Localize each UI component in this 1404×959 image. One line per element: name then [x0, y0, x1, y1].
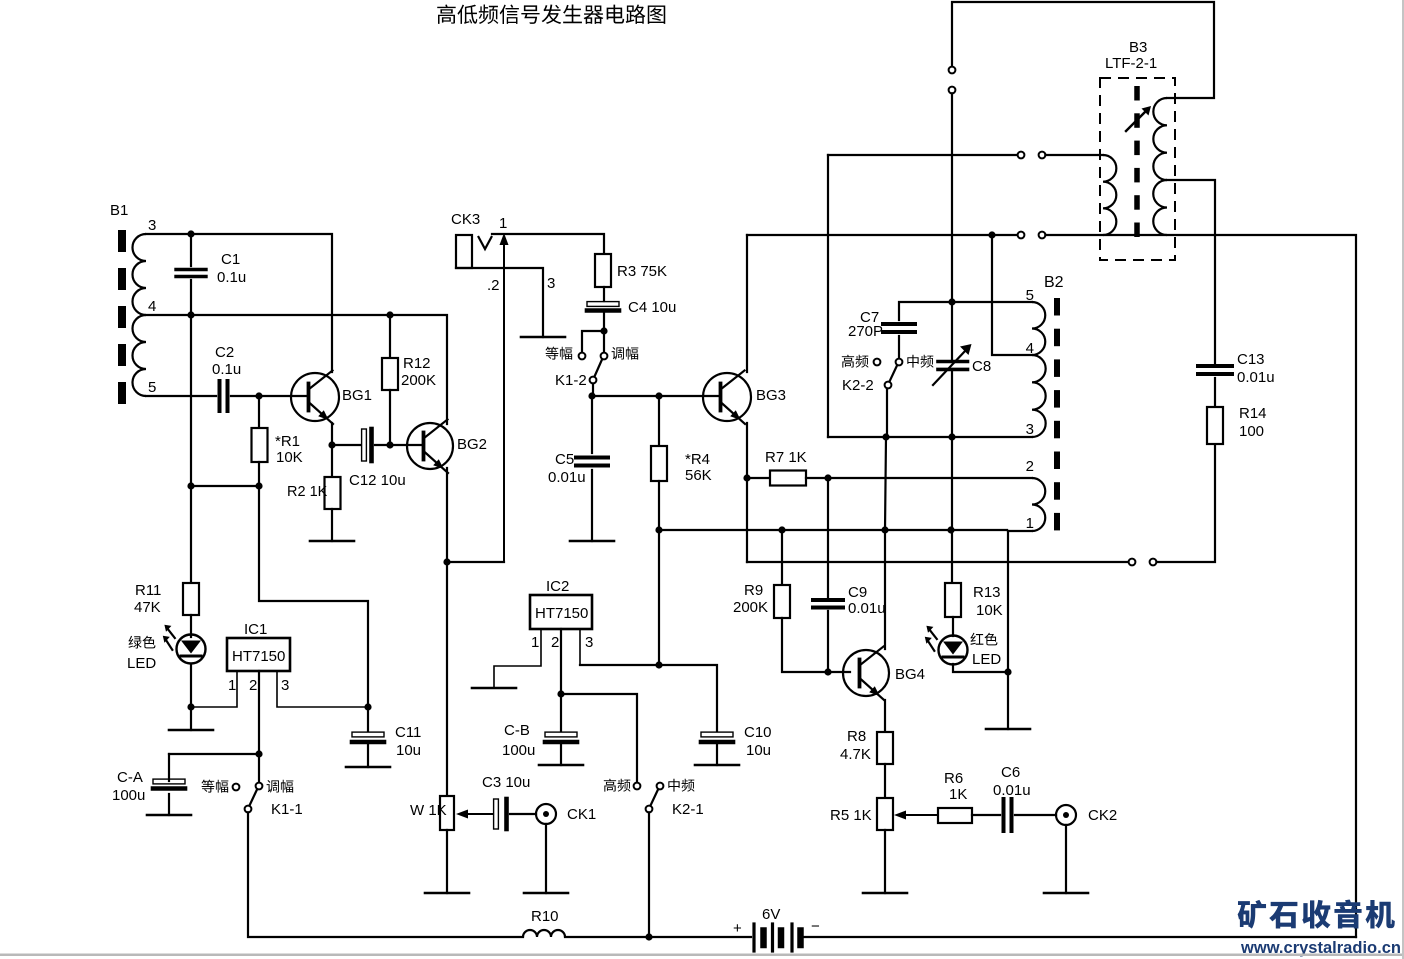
wire R9 bottom to BG4 base	[782, 618, 850, 672]
resistor R4	[651, 446, 667, 481]
capacitor C10	[701, 732, 733, 742]
wire x828 from y155 line down	[827, 155, 829, 437]
ground under R5	[863, 892, 907, 895]
svg-text:3: 3	[585, 634, 593, 651]
wire BG4 emitter to R8	[884, 700, 886, 732]
switch K1-1 lever	[250, 790, 258, 806]
jack CK1	[536, 804, 556, 824]
wire R7 right to B2 pin2	[806, 477, 1032, 479]
svg-text:10u: 10u	[746, 742, 771, 759]
wire K1-2 node to BG3 base	[592, 395, 719, 397]
svg-text:3: 3	[281, 677, 289, 694]
wire W pot bottom lead	[446, 830, 448, 893]
capacitor C-B	[545, 732, 577, 742]
contact 高频 of K2-2	[874, 359, 881, 366]
wire B1 pin5 to C2	[146, 395, 216, 397]
wire K1-1 common down to bottom rail	[248, 812, 523, 937]
transformer B3 left winding	[1103, 155, 1116, 235]
node C12 / R12 / BG2 base	[386, 441, 393, 448]
wire C8 node down to bus	[951, 437, 953, 530]
wire to BG2 base	[390, 444, 422, 446]
wire R3 to C4	[603, 287, 605, 301]
capacitor C11	[352, 732, 384, 742]
contact right pair upper switch	[1039, 152, 1046, 159]
node B2 pin5 / C8 / C7	[948, 298, 955, 305]
svg-text:R11: R11	[135, 582, 161, 599]
wire R12 bottom lead	[389, 390, 391, 445]
svg-text:−: −	[811, 918, 820, 935]
capacitor C9	[813, 600, 843, 608]
label 调幅 (K1-2)	[612, 347, 639, 360]
wire bus down to R13	[951, 530, 953, 583]
wire C12 right lead	[375, 444, 390, 446]
ground IC2 pin1	[472, 687, 516, 690]
wire R2 top lead	[331, 445, 333, 477]
svg-text:100u: 100u	[112, 787, 145, 804]
node bus / R13	[947, 526, 954, 533]
svg-text:C11: C11	[395, 724, 421, 741]
label 绿色	[128, 636, 155, 649]
wire C4 to 调幅 contact	[603, 331, 605, 352]
wire R4 bottom lead	[658, 481, 660, 530]
node R1 bottom rail junction	[187, 482, 194, 489]
wiper arrow R5	[894, 811, 938, 820]
svg-text:BG4: BG4	[895, 666, 925, 683]
transformer B2 lower winding	[1032, 478, 1045, 531]
wire IC2 pin3	[579, 629, 581, 665]
node K2-2 / B2 pin3 wire	[882, 433, 889, 440]
wire top switch down to B2 pin5 node	[951, 93, 953, 302]
contact common K1-2	[590, 377, 597, 384]
svg-text:IC1: IC1	[244, 621, 267, 638]
transformer B2 upper winding	[1032, 302, 1046, 437]
svg-text:B2: B2	[1044, 274, 1064, 291]
wire top loop	[952, 2, 1214, 98]
svg-text:+: +	[733, 920, 742, 937]
bus wire R4-R9-BG4-R13	[659, 529, 1007, 531]
label 中频 (K2-2)	[907, 355, 933, 368]
wire pin2 to 高频 contact	[561, 694, 637, 783]
ground B2 pin1	[986, 728, 1030, 731]
svg-text:47K: 47K	[134, 599, 161, 616]
switch K2-1 lever	[651, 790, 659, 806]
resistor R7	[770, 471, 806, 486]
svg-text:CK3: CK3	[451, 211, 480, 228]
svg-text:R2 1K: R2 1K	[287, 484, 328, 500]
wire C5 top lead	[591, 396, 593, 453]
wire R5 bottom lead	[884, 830, 886, 893]
svg-text:HT7150: HT7150	[535, 605, 588, 622]
svg-text:R6: R6	[944, 770, 963, 787]
node BG2 emitter / CK3.2 / W	[443, 558, 450, 565]
battery 6V	[754, 924, 801, 951]
svg-text:C6: C6	[1001, 764, 1020, 781]
resistor R11	[183, 583, 199, 615]
wire R4 node down to IC2 pin3 rail	[658, 530, 660, 665]
arrow adjustable core B3	[1126, 106, 1151, 131]
wire C11 top lead	[367, 707, 369, 731]
node K2-1 / bottom rail	[645, 933, 652, 940]
wire BG3 collector up	[746, 235, 748, 372]
wire C-A top lead	[169, 753, 259, 755]
wire C2 to BG1 base	[231, 395, 307, 397]
svg-text:C-A: C-A	[117, 769, 143, 786]
wire R9 top lead	[781, 530, 783, 585]
svg-text:R12: R12	[403, 355, 431, 372]
op-amp IC1 HT7150 box	[227, 638, 290, 671]
ground under C5	[570, 540, 614, 543]
label 高频 (K2-2)	[842, 355, 869, 368]
ground under C10	[695, 764, 739, 767]
wire IC1 pin2	[258, 671, 260, 783]
wire BG3 emitter down	[746, 423, 748, 562]
svg-text:0.01u: 0.01u	[993, 782, 1031, 799]
wire IC1 pin3	[277, 671, 368, 707]
transistor BG1	[291, 371, 339, 425]
node C8 / B2 pin3	[948, 433, 955, 440]
contact right pair lower switch	[1039, 232, 1046, 239]
node pin3 / R4 rail	[655, 661, 662, 668]
svg-text:5: 5	[1026, 287, 1034, 304]
svg-text:LED: LED	[972, 651, 1001, 668]
svg-text:6V: 6V	[762, 906, 780, 923]
svg-text:LTF-2-1: LTF-2-1	[1105, 55, 1157, 72]
svg-text:10K: 10K	[976, 602, 1003, 619]
wire W pot top lead	[446, 562, 448, 796]
svg-text:IC2: IC2	[546, 578, 569, 595]
wire BG4 collector up to bus	[884, 530, 886, 649]
svg-text:CK2: CK2	[1088, 807, 1117, 824]
wire R13 to LED	[952, 617, 954, 636]
contact 调幅 of K1-2	[601, 353, 608, 360]
transformer B2 core	[1054, 298, 1060, 530]
resistor R2	[325, 477, 341, 509]
transformer B1 core	[118, 230, 126, 404]
node bus / R9	[778, 526, 785, 533]
transistor BG4	[843, 647, 889, 701]
contact 调幅 of K1-1	[256, 783, 263, 790]
svg-text:C10: C10	[744, 724, 772, 741]
svg-text:10u: 10u	[396, 742, 421, 759]
wire CK3 body bottom / pin3	[456, 268, 543, 337]
wire B2 pin3 terminal	[828, 436, 1032, 438]
jack CK2	[1056, 805, 1076, 825]
capacitor C6	[1004, 799, 1012, 831]
node R4 / bus	[655, 526, 662, 533]
transformer B3 shield box	[1100, 78, 1175, 260]
contact common K2-2	[885, 382, 892, 389]
label 中频 (K2-1)	[668, 779, 694, 792]
wire C-A bottom lead	[168, 794, 170, 815]
svg-text:.2: .2	[487, 277, 500, 294]
svg-text:R13: R13	[973, 584, 1001, 601]
wire C6 to CK2	[1015, 814, 1056, 816]
wire BG1 emitter down	[331, 423, 333, 445]
svg-text:*R4: *R4	[685, 451, 710, 468]
wire K2-2 common down	[886, 389, 888, 438]
capacitor C2	[220, 381, 228, 411]
wire C7 to 中频 contact	[898, 336, 900, 358]
wire C7 hook	[899, 302, 952, 320]
wire B1 pin3 to BG1 collector	[146, 234, 332, 372]
svg-text:5: 5	[148, 379, 156, 396]
capacitor C1	[176, 270, 206, 277]
node BG1 emitter / R2 / C12	[328, 441, 335, 448]
wire x828 top to left upper contact	[828, 154, 1018, 156]
svg-text:BG3: BG3	[756, 387, 786, 404]
wire upper switch to B3 left winding top	[1045, 154, 1103, 156]
svg-text:2: 2	[551, 634, 559, 651]
contact top switch lower	[949, 87, 956, 94]
svg-text:K1-1: K1-1	[271, 801, 303, 818]
resistor R8	[877, 732, 893, 764]
svg-text:*R1: *R1	[275, 433, 300, 450]
wire R11 to LED	[190, 615, 192, 637]
wire R6 to C6	[972, 814, 1000, 816]
wire C1 bottom lead	[190, 280, 192, 315]
node IC1 pin2 / C-A	[255, 750, 262, 757]
inductor R10	[523, 930, 565, 937]
ground under C-B	[539, 764, 583, 767]
wire red LED cathode	[953, 664, 1008, 672]
contact 等幅 of K1-1	[233, 784, 240, 791]
svg-text:100: 100	[1239, 423, 1264, 440]
node bus / BG4 collector	[881, 526, 888, 533]
wire bottom rail R10 to battery	[565, 936, 751, 938]
svg-text:HT7150: HT7150	[232, 648, 285, 665]
svg-text:R7 1K: R7 1K	[765, 449, 807, 466]
transformer B1 winding	[133, 234, 147, 396]
wire CK3 pin2 to BG2 emitter node	[447, 561, 504, 563]
svg-text:0.01u: 0.01u	[1237, 369, 1275, 386]
svg-text:2: 2	[249, 677, 257, 694]
svg-text:0.01u: 0.01u	[548, 469, 586, 486]
svg-text:R8: R8	[847, 728, 866, 745]
capacitor C12	[362, 429, 372, 461]
LED green (绿色)	[163, 625, 206, 664]
wire BG3 emitter line to K3 contacts	[747, 561, 1129, 563]
wire B2 pin4 to y235	[992, 235, 1032, 355]
resistor R12	[382, 358, 398, 390]
svg-text:B1: B1	[110, 202, 128, 219]
wire CK2 to ground	[1065, 825, 1067, 893]
wire IC2 pin1	[494, 629, 541, 688]
capacitor C5	[576, 458, 608, 466]
wire B1 pin4 rail to BG2 collector	[146, 315, 447, 424]
wire C3 to CK1	[510, 813, 536, 815]
svg-text:56K: 56K	[685, 467, 712, 484]
contact 中频 of K2-2	[896, 359, 903, 366]
svg-text:200K: 200K	[401, 372, 436, 389]
wire C4 bottom lead	[603, 313, 605, 331]
switch K1-2 lever	[595, 360, 603, 377]
contact left pair upper switch	[1018, 152, 1025, 159]
svg-text:R9: R9	[744, 582, 763, 599]
wire CK1 to ground	[545, 824, 547, 893]
svg-text:C9: C9	[848, 584, 867, 601]
wire feedback to IC1 pin3 rail	[259, 486, 368, 703]
svg-text:10K: 10K	[276, 449, 303, 466]
wire B2 pin5 terminal	[952, 301, 1032, 303]
node BG3 emitter / R7	[743, 474, 750, 481]
wire left rail down from pin4 node	[190, 315, 192, 583]
node IC1 pin3 / C11 / feedback	[364, 703, 371, 710]
node K1-2 / C5 / BG3 base	[588, 392, 595, 399]
wire C-A riser	[168, 754, 170, 781]
svg-text:R14: R14	[1239, 405, 1267, 422]
watermark 矿石收音机	[1238, 900, 1395, 929]
svg-text:C1: C1	[221, 251, 240, 268]
wire BG2 emitter down to W node	[446, 468, 448, 562]
node B1 pin3 / C1	[187, 230, 194, 237]
wire C9 bottom lead	[827, 611, 829, 672]
svg-text:C5: C5	[555, 451, 574, 468]
wire K2-1 common down to battery rail	[648, 812, 650, 937]
resistor R3	[595, 254, 611, 287]
node y235 / B2 pin4 riser	[988, 231, 995, 238]
label 等幅 (K1-2)	[545, 347, 572, 360]
ground CK3 pin3	[521, 336, 565, 339]
svg-text:0.1u: 0.1u	[217, 269, 246, 286]
potentiometer R5	[877, 798, 893, 830]
wire battery to right rail	[804, 936, 1357, 938]
contact left pair lower switch	[1018, 232, 1025, 239]
wire C-B bottom lead	[560, 745, 562, 765]
wire lower switch to B3 left winding	[1045, 235, 1356, 937]
wire R12 top lead	[389, 315, 391, 358]
transistor BG3	[703, 371, 751, 425]
svg-text:W 1K: W 1K	[410, 802, 447, 819]
wire B2 pin1 terminal	[1008, 530, 1032, 532]
ground under R2	[310, 540, 354, 543]
potentiometer W	[440, 796, 454, 830]
wire C5 bottom lead	[591, 470, 593, 541]
svg-text:K2-1: K2-1	[672, 801, 704, 818]
capacitor C8 variable	[933, 344, 972, 385]
capacitor C-A	[153, 779, 185, 788]
wiper arrow W	[456, 810, 492, 819]
LED red (红色)	[925, 626, 968, 665]
capacitor C7	[883, 324, 915, 332]
svg-text:LED: LED	[127, 655, 156, 672]
node red LED cathode / pin1 rail	[1004, 668, 1011, 675]
wire green LED cathode to ground	[190, 664, 192, 730]
node pin4/R12	[386, 311, 393, 318]
svg-text:B3: B3	[1129, 39, 1147, 56]
switch K2-2 lever	[890, 366, 898, 382]
svg-text:0.01u: 0.01u	[848, 600, 886, 617]
ground under C11	[346, 766, 390, 769]
svg-text:270P: 270P	[848, 323, 883, 340]
svg-text:1: 1	[531, 634, 539, 651]
node IC2 pin2 / C-B / K2-1	[557, 690, 564, 697]
svg-text:R3 75K: R3 75K	[617, 263, 667, 280]
contact 中频 of K2-1	[657, 783, 664, 790]
svg-text:4.7K: 4.7K	[840, 746, 871, 763]
op-amp IC2 HT7150 box	[530, 595, 592, 629]
svg-text:C3 10u: C3 10u	[482, 774, 530, 791]
wire CK3 pin1 to R3	[492, 234, 604, 254]
wire B3 right tap to C13	[1167, 180, 1215, 363]
svg-text:K1-2: K1-2	[555, 372, 587, 389]
resistor R14	[1207, 407, 1223, 444]
wire R7 left lead	[747, 477, 770, 479]
title 高低频信号发生器电路图	[437, 4, 665, 23]
node pin4/C1	[187, 311, 194, 318]
wire C1 top lead	[190, 234, 192, 266]
wire C8 top lead	[951, 302, 953, 360]
svg-text:1: 1	[228, 677, 236, 694]
svg-text:C13: C13	[1237, 351, 1265, 368]
svg-text:0.1u: 0.1u	[212, 361, 241, 378]
wire K2-2 node to bus	[885, 437, 886, 530]
contact 等幅 of K1-2	[579, 353, 586, 360]
svg-text:C12 10u: C12 10u	[349, 472, 406, 489]
label 等幅 (K1-1)	[201, 780, 228, 793]
node LED cathode / IC1 pin1	[187, 703, 194, 710]
label 红色	[970, 633, 997, 646]
node BG1 base / R1	[255, 392, 262, 399]
contact common K2-1	[646, 806, 653, 813]
capacitor C13	[1198, 366, 1232, 374]
transistor BG2	[407, 420, 453, 474]
resistor R1	[252, 428, 268, 462]
svg-text:C8: C8	[972, 358, 991, 375]
wire C9 top lead	[827, 478, 829, 597]
svg-text:2: 2	[1026, 458, 1034, 475]
wire R1 top lead	[258, 396, 260, 428]
wire B2 pin1 down to ground	[1007, 531, 1009, 729]
contact top switch upper	[949, 67, 956, 74]
wire R1 node to left rail	[191, 485, 259, 487]
svg-text:100u: 100u	[502, 742, 535, 759]
wire R8 to R5	[884, 764, 886, 798]
wire IC2 pin2	[560, 629, 562, 731]
svg-text:C-B: C-B	[504, 722, 530, 739]
node C4 bottom / K1-2	[600, 327, 607, 334]
svg-text:3: 3	[148, 217, 156, 234]
svg-text:4: 4	[148, 298, 156, 315]
svg-text:R10: R10	[531, 908, 559, 925]
svg-text:3: 3	[547, 275, 555, 292]
wire C13 to R14	[1214, 378, 1216, 407]
wire CK3 pin2 with plug arrow	[500, 233, 509, 562]
node R7 right / C9	[824, 474, 831, 481]
wire R2 bottom lead	[331, 509, 333, 541]
wire IC1 pin1	[194, 671, 237, 707]
capacitor C4	[587, 302, 619, 311]
label 调幅 (K1-1)	[267, 780, 294, 793]
contact 高频 of K2-1	[634, 783, 641, 790]
wire C8 bottom lead	[951, 371, 953, 437]
resistor R9	[774, 585, 790, 618]
contact switch right (series)	[1150, 559, 1157, 566]
ground under C-A	[147, 814, 191, 817]
wire K1-2 common down	[592, 384, 594, 397]
node R1 bottom	[255, 482, 262, 489]
svg-text:C2: C2	[215, 344, 234, 361]
svg-text:1: 1	[1026, 515, 1034, 532]
capacitor C3	[494, 799, 507, 829]
svg-text:BG2: BG2	[457, 436, 487, 453]
wire hook to 等幅 contact	[582, 331, 604, 352]
svg-text:K2-2: K2-2	[842, 377, 874, 394]
node R4 top	[655, 392, 662, 399]
wire C12 left lead	[332, 444, 360, 446]
node C9 bottom / BG4 base	[824, 668, 831, 675]
svg-text:C4 10u: C4 10u	[628, 299, 676, 316]
jack CK3 body	[456, 235, 492, 268]
